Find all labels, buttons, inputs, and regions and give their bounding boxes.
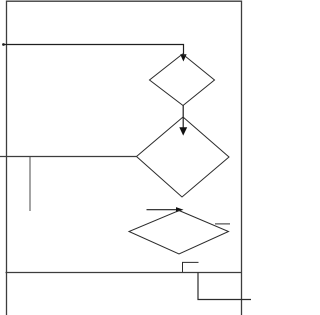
arrowhead into D1 xyxy=(180,54,186,61)
decision D2 xyxy=(137,117,230,197)
arrowhead into D2 xyxy=(179,127,187,135)
wire arrow into D3 top xyxy=(147,209,178,211)
process box bottom right xyxy=(198,273,251,300)
connector stub above bottom bus xyxy=(183,262,199,272)
arrowhead into D3 xyxy=(176,207,184,212)
wire stub down from D2 wire xyxy=(29,157,31,211)
node start dot xyxy=(2,43,5,46)
border frame (open at bottom) xyxy=(7,1,242,315)
wire to decision D1 xyxy=(3,45,184,56)
wire D1 to D2 xyxy=(182,106,184,129)
tick at D3 right xyxy=(215,223,230,225)
decision D1 xyxy=(150,54,215,106)
decision D3 xyxy=(129,211,229,255)
wire into D2 left xyxy=(0,156,137,158)
bottom bus wire xyxy=(6,272,242,274)
